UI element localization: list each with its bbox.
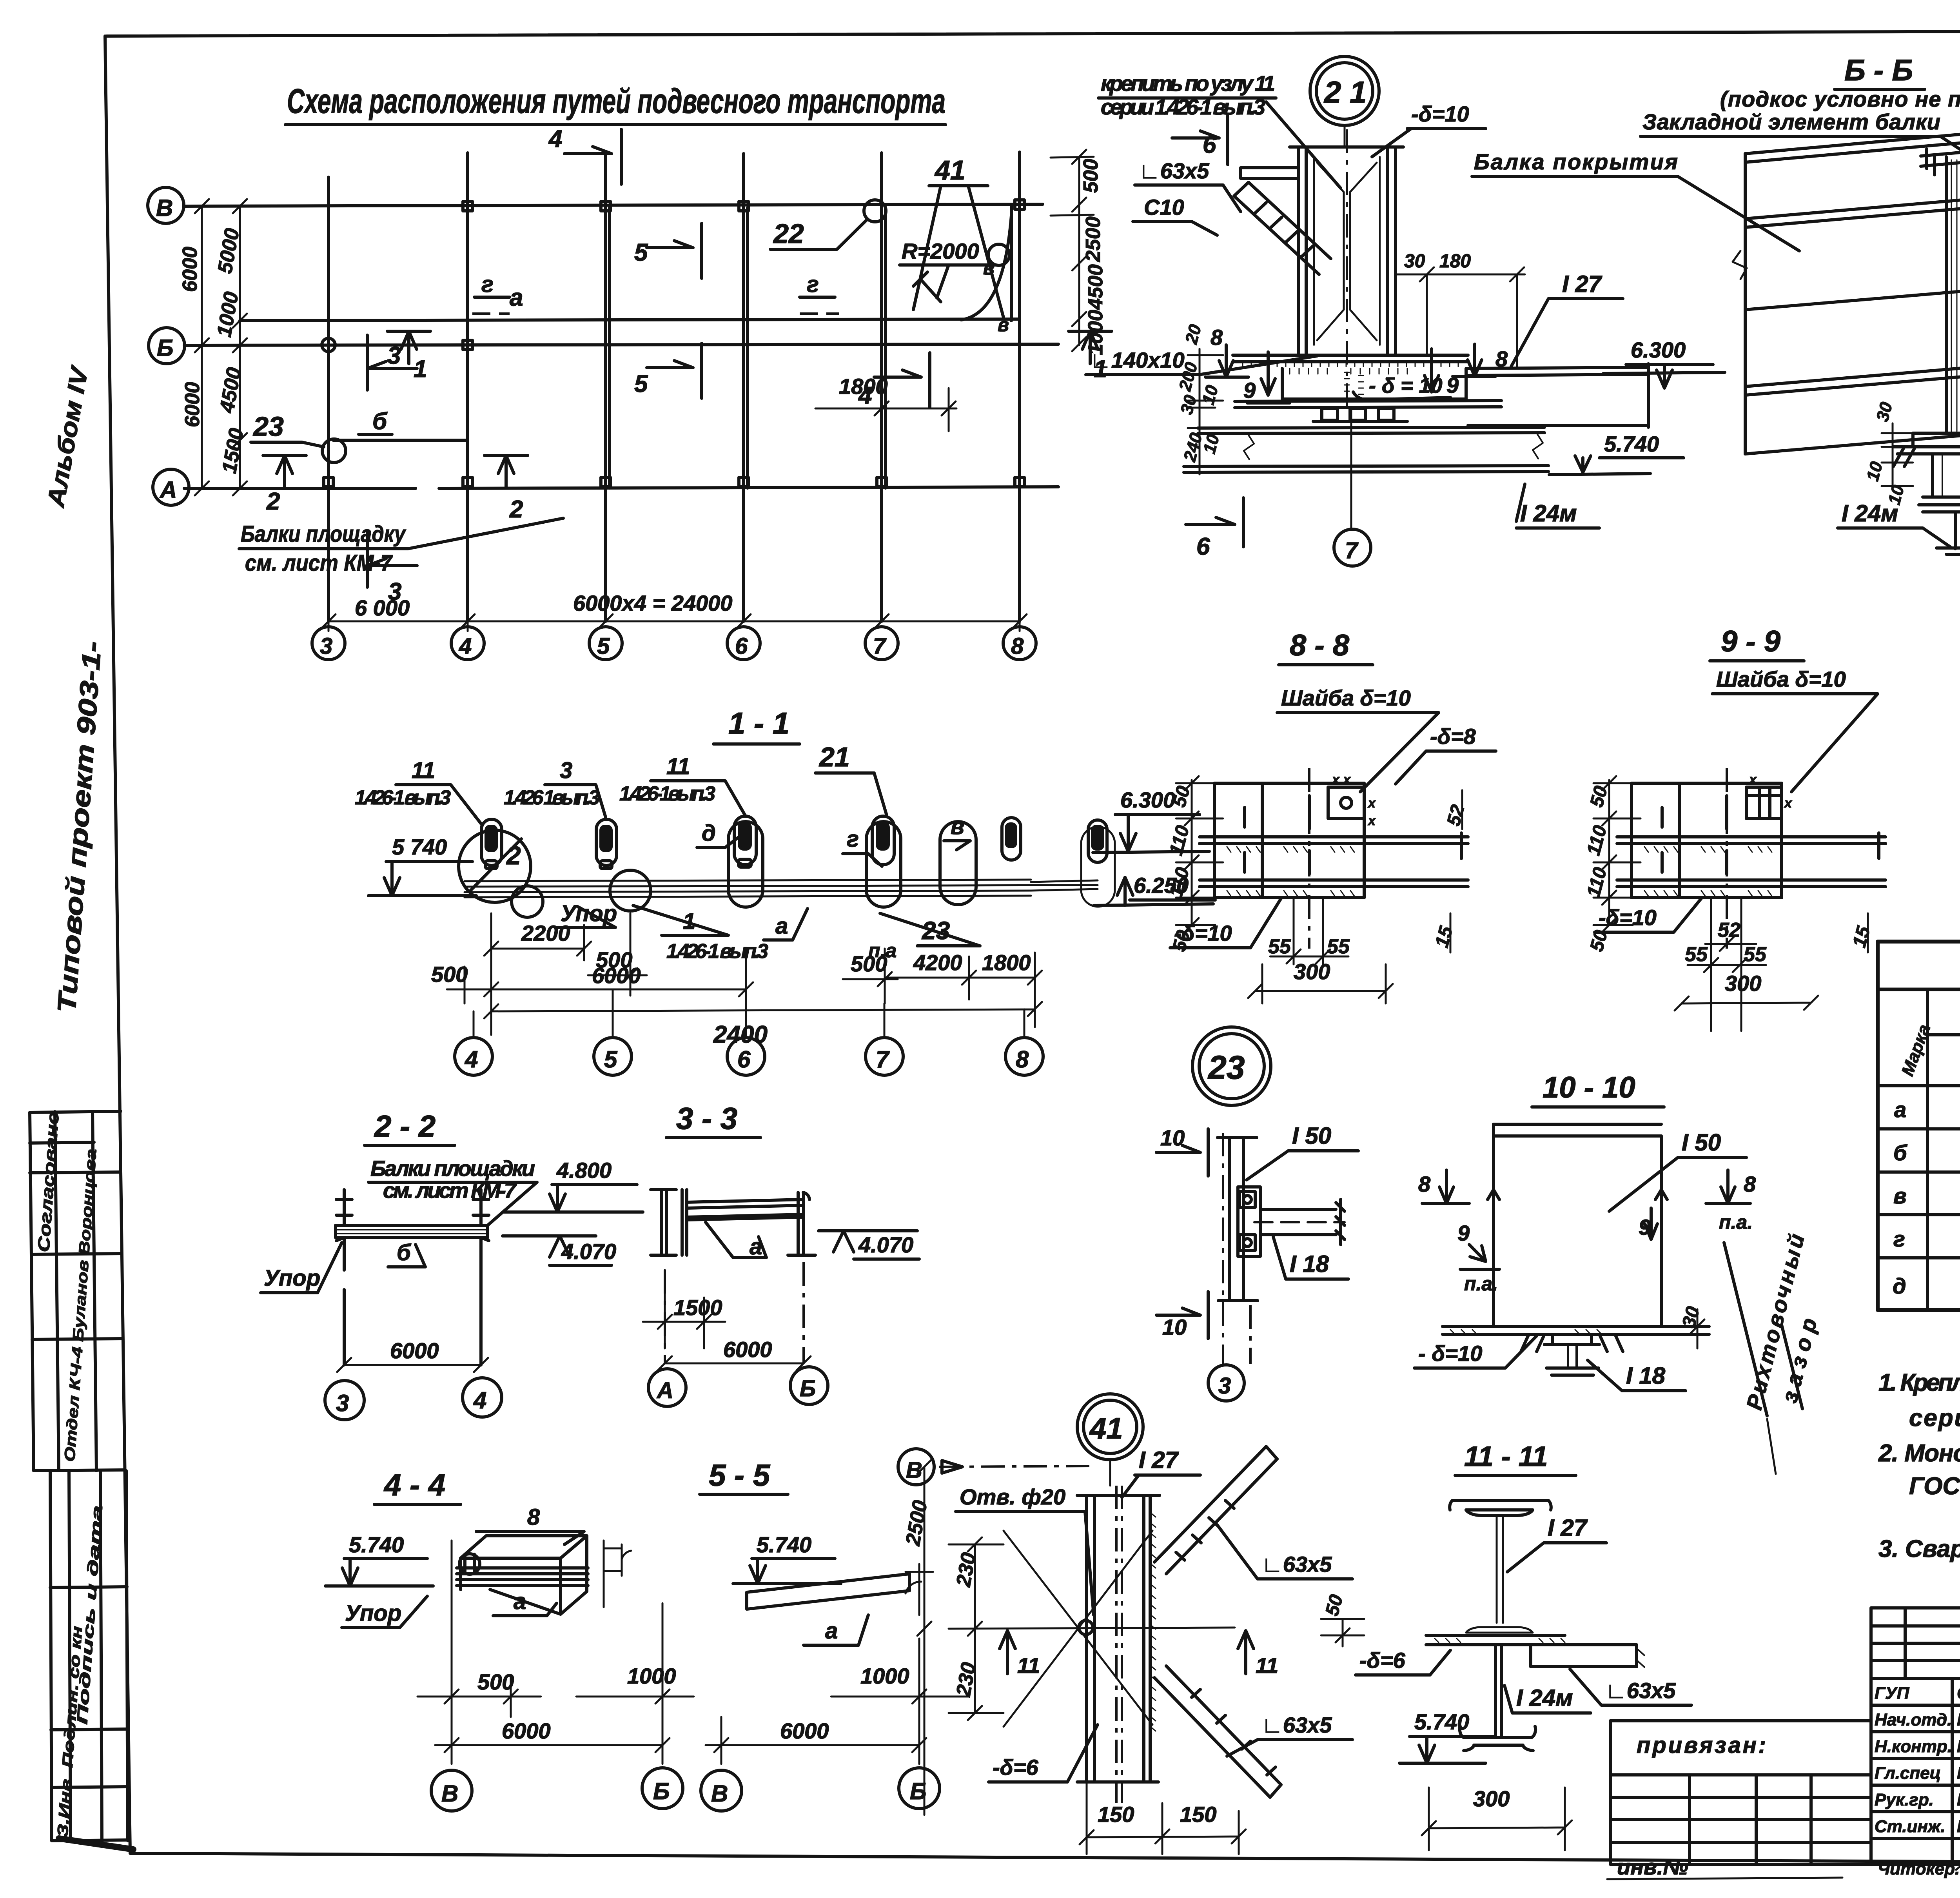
- centre line (41): [949, 1628, 1235, 1629]
- signature table: [1871, 1608, 1960, 1864]
- svg-text:г: г: [1893, 1227, 1905, 1251]
- hanger clip at col 5: [596, 819, 617, 869]
- svg-text:привязан:: привязан:: [1637, 1733, 1766, 1758]
- svg-text:крепить по узлу 11: крепить по узлу 11: [1101, 71, 1275, 96]
- svg-text:1.426 1вып.3: 1.426 1вып.3: [504, 786, 600, 809]
- base 10-10: [1443, 1326, 1709, 1375]
- svg-text:а: а: [775, 913, 788, 939]
- svg-text:4500: 4500: [1084, 264, 1107, 310]
- svg-text:(подкос условно не показан): (подкос условно не показан): [1720, 87, 1960, 111]
- axis circle А: [153, 469, 189, 505]
- svg-text:5.740: 5.740: [1604, 432, 1659, 456]
- svg-text:а: а: [510, 284, 523, 311]
- svg-text:∟63х5: ∟63х5: [1605, 1678, 1676, 1703]
- svg-text:3: 3: [560, 758, 572, 783]
- label I50 (23): [1247, 1123, 1358, 1180]
- top bracket (21): [1241, 168, 1298, 178]
- label г 1-1: [843, 826, 882, 866]
- joint circle at col 5: [610, 870, 651, 911]
- svg-text:4: 4: [548, 125, 562, 152]
- svg-text:11 - 11: 11 - 11: [1464, 1441, 1548, 1472]
- table header lines: [1927, 1033, 1960, 1036]
- circle 23: [1192, 1027, 1271, 1105]
- column line 7: [882, 153, 886, 621]
- elevation 4.070 2-2: [503, 1236, 616, 1265]
- label 41 plan: [913, 155, 1004, 318]
- dim 52 (9-9): [1705, 919, 1756, 951]
- svg-text:в: в: [983, 258, 995, 279]
- column squares row А: [324, 477, 1024, 487]
- hanger clip at col 7: [872, 816, 894, 865]
- svg-text:Катаева: Катаева: [1957, 1790, 1960, 1809]
- bottom dims 55/55 (9-9): [1685, 898, 1767, 1031]
- section axis circle 4 (1-1): [455, 1011, 492, 1075]
- column (41): [1077, 1495, 1160, 1782]
- svg-text:500: 500: [431, 962, 468, 987]
- title 8-8: [1279, 629, 1373, 665]
- svg-text:Упор: Упор: [345, 1600, 401, 1626]
- svg-text:I 27: I 27: [1139, 1447, 1179, 1473]
- column axis circle 8: [1003, 627, 1036, 660]
- svg-text:55: 55: [1685, 943, 1708, 966]
- label I27 (11-11): [1507, 1515, 1606, 1572]
- curve branch near col 8: [913, 216, 1011, 320]
- dim 500 (col7): [843, 949, 898, 1003]
- table row lines: [1878, 1129, 1960, 1258]
- axis circle Б (3-3): [790, 1367, 828, 1404]
- svg-text:3: 3: [1218, 1373, 1231, 1399]
- svg-text:б: б: [372, 408, 388, 434]
- svg-text:I 50: I 50: [1682, 1129, 1721, 1156]
- axis dash (41): [939, 1466, 1090, 1467]
- elevation 4.800: [504, 1158, 643, 1212]
- svg-text:8: 8: [1495, 347, 1508, 371]
- signature rows text: [1875, 1684, 1960, 1836]
- label L63x5 upper (41): [1217, 1525, 1352, 1579]
- svg-text:см. лист КМ-7: см. лист КМ-7: [245, 550, 393, 576]
- section axis circle 8 (1-1): [1005, 1009, 1043, 1075]
- label I27 (21): [1511, 271, 1623, 367]
- svg-text:д: д: [1893, 1274, 1906, 1298]
- svg-text:3: 3: [320, 633, 332, 659]
- svg-text:4 - 4: 4 - 4: [383, 1468, 445, 1502]
- column cap squares row В: [463, 200, 1024, 211]
- svg-text:4200: 4200: [913, 950, 962, 975]
- svg-text:1000: 1000: [627, 1664, 676, 1688]
- monorail b line: [333, 439, 468, 442]
- svg-text:2500: 2500: [1082, 216, 1105, 262]
- svg-text:300: 300: [1725, 971, 1761, 996]
- svg-text:в: в: [998, 315, 1009, 336]
- elevation 5740 (1-1): [368, 835, 476, 896]
- plate 8-8: [1200, 783, 1468, 898]
- label -δ=6 (41): [989, 1725, 1098, 1782]
- svg-text:∟140х10: ∟140х10: [1090, 348, 1185, 372]
- svg-text:х: х: [1748, 772, 1757, 787]
- svg-text:Колесова: Колесова: [1957, 1817, 1960, 1836]
- label Упор 2-2: [261, 1243, 342, 1293]
- mark 11 left (41): [1000, 1631, 1040, 1678]
- svg-text:г: г: [847, 826, 859, 852]
- svg-text:11: 11: [1017, 1653, 1040, 1678]
- svg-text:В: В: [156, 195, 173, 221]
- label 1 / 1.426-1вып.3: [633, 905, 768, 963]
- dim 500 4-4: [417, 1669, 541, 1717]
- svg-text:4: 4: [459, 633, 472, 659]
- lower I24м (11-11): [1460, 1645, 1535, 1751]
- svg-text:Нач.отд.: Нач.отд.: [1875, 1710, 1952, 1729]
- svg-text:В: В: [441, 1780, 458, 1807]
- bottom dim 150 150 (41): [1080, 1782, 1246, 1854]
- svg-text:6000: 6000: [179, 247, 201, 292]
- инв № handwriting: [1607, 1854, 1842, 1879]
- axis circle Б: [149, 328, 185, 364]
- elevation 6.250 (1-1): [1094, 873, 1215, 905]
- column line 3: [327, 177, 330, 621]
- last signature row scribble: [1878, 1858, 1960, 1878]
- svg-text:5: 5: [604, 1046, 618, 1072]
- svg-text:3: 3: [336, 1390, 349, 1416]
- label R=2000: [900, 239, 996, 298]
- svg-text:ГОСТ 22584-77 грузоподъемнос: ГОСТ 22584-77 грузоподъемностью: в осях …: [1909, 1473, 1960, 1500]
- hanger clip at col 6: [734, 816, 756, 867]
- svg-text:52: 52: [1718, 919, 1740, 942]
- row a: [1894, 1097, 1960, 1123]
- svg-text:9: 9: [1457, 1221, 1470, 1245]
- svg-text:1500: 1500: [673, 1295, 722, 1320]
- svg-text:серии 1.426-1 вып.3.: серии 1.426-1 вып.3.: [1909, 1404, 1960, 1432]
- dim 30 (10-10): [1678, 1304, 1704, 1348]
- svg-text:I 27: I 27: [1562, 271, 1602, 297]
- circle marker right of col 7: [940, 822, 976, 905]
- svg-text:Балка покрытия: Балка покрытия: [1474, 149, 1678, 174]
- svg-text:6000: 6000: [592, 963, 641, 988]
- svg-text:4.800: 4.800: [556, 1158, 612, 1183]
- svg-text:2 - 2: 2 - 2: [374, 1109, 436, 1143]
- dim 1800 1-1: [976, 950, 1042, 1003]
- label -δ=10 (10-10): [1414, 1336, 1537, 1368]
- row в: [1893, 1183, 1960, 1209]
- svg-text:I 18: I 18: [1626, 1363, 1666, 1389]
- axis row В line: [184, 204, 1043, 206]
- svg-text:6: 6: [1196, 533, 1210, 560]
- label Упор 4-4: [342, 1596, 427, 1628]
- svg-text:6000: 6000: [723, 1337, 772, 1362]
- elevation 4.070 3-3: [818, 1231, 919, 1259]
- svg-text:9: 9: [1446, 373, 1459, 397]
- svg-text:1000: 1000: [860, 1664, 909, 1688]
- washer square 9-9: [1746, 772, 1793, 818]
- upper brace L63x5 (41): [1154, 1446, 1277, 1574]
- svg-text:9 - 9: 9 - 9: [1721, 625, 1780, 658]
- beam 3-3: [687, 1192, 815, 1255]
- label д: [697, 820, 739, 847]
- svg-text:8 - 8: 8 - 8: [1290, 629, 1350, 662]
- svg-text:х: х: [1784, 796, 1793, 811]
- svg-text:г: г: [481, 272, 494, 297]
- column axis circle 3: [312, 627, 345, 660]
- svg-text:-δ=6: -δ=6: [1359, 1648, 1406, 1673]
- svg-text:2 1: 2 1: [1323, 75, 1367, 109]
- svg-text:∟63х5: ∟63х5: [1261, 1713, 1332, 1737]
- mark 11 right (41): [1238, 1631, 1278, 1678]
- svg-text:в: в: [951, 814, 964, 839]
- svg-text:5: 5: [634, 239, 648, 266]
- svg-text:инв.№: инв.№: [1617, 1854, 1688, 1879]
- svg-text:3: 3: [388, 578, 401, 605]
- section mark 5 bottom: [634, 343, 702, 398]
- section mark 4 bottom: [858, 353, 930, 409]
- column axis circle 5: [589, 627, 622, 660]
- svg-text:А: А: [656, 1378, 673, 1403]
- dim texts left chain (21): [1175, 322, 1223, 464]
- row г: [1893, 1225, 1960, 1252]
- svg-text:9: 9: [1243, 378, 1256, 403]
- dim 15 (9-9): [1849, 913, 1874, 953]
- svg-text:11: 11: [412, 758, 435, 783]
- dim 6000 1-1: [484, 949, 753, 1011]
- title 9-9: [1710, 625, 1804, 661]
- label L140x10: [1086, 348, 1317, 375]
- roof beam panel Б-Б: [1733, 130, 1960, 454]
- axis circle В (4-4): [431, 1770, 472, 1811]
- svg-text:6000: 6000: [780, 1718, 829, 1743]
- svg-text:а: а: [1894, 1097, 1906, 1122]
- label 23 1-1: [880, 913, 980, 946]
- left dim chain 9-9: [1593, 776, 1641, 932]
- stop circle upor: [512, 886, 543, 917]
- column (21): [1290, 147, 1403, 355]
- label 22: [770, 200, 886, 249]
- svg-text:Соловьев: Соловьев: [1957, 1684, 1960, 1703]
- svg-text:55: 55: [1327, 935, 1350, 958]
- bottom dim 300 (9-9): [1675, 971, 1818, 1011]
- svg-text:8: 8: [1016, 1046, 1029, 1072]
- mark 9 left + па (10-10): [1457, 1221, 1499, 1295]
- circle 3 (23): [1208, 1365, 1244, 1401]
- svg-text:Б: Б: [653, 1778, 670, 1804]
- svg-text:150: 150: [1180, 1802, 1216, 1827]
- verticals 5-5: [906, 1564, 933, 1678]
- svg-text:5: 5: [634, 370, 648, 397]
- washer square 8-8: [1328, 772, 1376, 828]
- column axis circle 7: [865, 627, 898, 660]
- mark 9 right (21): [1411, 349, 1459, 399]
- mark 6 bottom (21): [1186, 498, 1243, 560]
- elevation 6.300 (21): [1603, 338, 1725, 388]
- section axis circle 5 (1-1): [594, 989, 632, 1075]
- label I27 (41): [1122, 1447, 1200, 1497]
- svg-text:6000х4 = 24000: 6000х4 = 24000: [573, 591, 732, 615]
- left stamp table: [30, 1111, 133, 1849]
- svg-text:Закладной элемент балки: Закладной элемент балки: [1642, 109, 1940, 134]
- svg-text:В: В: [711, 1780, 728, 1807]
- svg-text:2: 2: [266, 488, 280, 515]
- section axis circle 7 (1-1): [866, 1003, 903, 1075]
- svg-text:Отв. ф20: Отв. ф20: [960, 1484, 1065, 1509]
- monorail beam 1-1: [465, 880, 1098, 897]
- mid flange (11-11): [1426, 1635, 1644, 1667]
- label 8 4-4: [476, 1504, 584, 1544]
- left dim verticals: [195, 199, 247, 495]
- dim 1500 3-3: [643, 1270, 725, 1348]
- svg-text:500: 500: [1080, 159, 1102, 193]
- svg-text:6000: 6000: [181, 382, 204, 427]
- section mark 2 mid: [485, 455, 528, 523]
- circle 41: [1077, 1394, 1143, 1486]
- svg-text:11: 11: [666, 754, 690, 779]
- label I50 (10-10): [1609, 1129, 1746, 1211]
- column line 5: [606, 154, 610, 621]
- dim 50 (11-11): [1321, 1592, 1364, 1646]
- svg-text:1800: 1800: [982, 950, 1031, 975]
- dim 500 (left): [431, 962, 491, 1003]
- elevation 5.740 5-5: [733, 1532, 841, 1584]
- svg-text:-δ=10: -δ=10: [1411, 102, 1469, 126]
- svg-text:I 27: I 27: [1548, 1515, 1588, 1541]
- label L63x5 (11-11): [1570, 1669, 1691, 1705]
- column 3-3: [651, 1190, 687, 1255]
- svg-text:Б: Б: [157, 335, 173, 361]
- svg-text:R=2000: R=2000: [902, 239, 979, 263]
- svg-text:8: 8: [1210, 325, 1223, 350]
- dim 2200: [484, 913, 591, 1035]
- svg-text:21: 21: [818, 742, 850, 772]
- label крепить по узлу 11: [1098, 71, 1341, 188]
- svg-text:а: а: [750, 1234, 762, 1259]
- svg-text:6.300: 6.300: [1631, 338, 1686, 362]
- title 5-5: [700, 1458, 788, 1494]
- svg-text:6: 6: [735, 633, 748, 659]
- svg-text:∟63х5: ∟63х5: [1139, 158, 1209, 183]
- svg-text:1.426-1вып.3: 1.426-1вып.3: [619, 782, 715, 805]
- svg-text:- δ=10: - δ=10: [1418, 1341, 1482, 1366]
- svg-text:1800: 1800: [839, 374, 888, 399]
- mark 8 down left (21): [1205, 325, 1249, 377]
- bottom dim 300 (8-8): [1248, 959, 1393, 1003]
- svg-text:8: 8: [1744, 1172, 1756, 1196]
- axis dashed 9-9: [1726, 768, 1728, 949]
- dim 4200: [885, 950, 976, 1000]
- svg-text:Б: Б: [800, 1376, 816, 1401]
- svg-text:б: б: [1893, 1140, 1907, 1165]
- label I24м (11-11): [1504, 1685, 1591, 1713]
- detail circle 2 on clip 4: [459, 830, 531, 902]
- mark 8 left (10-10): [1418, 1170, 1469, 1203]
- svg-text:4.070: 4.070: [561, 1239, 616, 1264]
- title 10-10: [1532, 1071, 1664, 1107]
- svg-text:6.300: 6.300: [1120, 788, 1175, 812]
- label 3 / 1.426 1вып3: [504, 758, 606, 817]
- section mark 1 right: [1069, 331, 1112, 383]
- dim 2500 (41): [902, 1460, 932, 1815]
- label -δ=8 (8-8): [1396, 724, 1496, 784]
- table outer: [1878, 942, 1960, 1310]
- column axis circle 6: [727, 627, 760, 660]
- dim 6000 3-3: [658, 1262, 811, 1370]
- svg-text:500: 500: [851, 951, 887, 976]
- svg-text:ГУП: ГУП: [1875, 1684, 1910, 1703]
- dim 2400 total: [484, 980, 1042, 1048]
- svg-text:6000: 6000: [502, 1718, 551, 1743]
- bolt washers (21): [1235, 401, 1501, 421]
- column I50 (23): [1218, 1138, 1258, 1301]
- axis row Б line: [184, 344, 1058, 345]
- svg-text:б: б: [397, 1240, 412, 1265]
- bottom dims 55/55 (8-8): [1268, 898, 1350, 964]
- svg-text:серии 1.426-1 вып.3: серии 1.426-1 вып.3: [1101, 94, 1265, 119]
- svg-text:Марков: Марков: [1957, 1737, 1960, 1756]
- column line 8: [1011, 152, 1020, 621]
- left dim chain (21): [1188, 349, 1223, 474]
- monorail b label + flag: [359, 408, 392, 434]
- label Отв ф20 (41): [956, 1484, 1094, 1615]
- column axis dashed (21): [1346, 129, 1348, 408]
- hanger capsule at col 7: [866, 822, 901, 907]
- svg-text:I 24м: I 24м: [1842, 500, 1898, 526]
- beam I18 (23): [1254, 1199, 1345, 1245]
- svg-text:Схема расположения путей подве: Схема расположения путей подвесного тран…: [287, 82, 946, 120]
- dim 6000 4-4: [435, 1717, 670, 1764]
- title 2-2: [365, 1109, 455, 1145]
- svg-text:Балки площадку: Балки площадку: [241, 521, 406, 547]
- label Шайба δ=10 (9-9): [1712, 667, 1878, 792]
- svg-text:х: х: [1367, 813, 1376, 828]
- label Упор 1-1: [557, 901, 617, 927]
- plate 9-9: [1617, 783, 1886, 898]
- hanger dashes г near col 7: [800, 272, 839, 314]
- svg-text:10: 10: [1162, 1315, 1187, 1339]
- upper I27 (11-11): [1450, 1501, 1551, 1633]
- mark 8 right + па (10-10): [1706, 1170, 1756, 1233]
- svg-text:Шайба δ=10: Шайба δ=10: [1716, 667, 1846, 691]
- section mark 2 left: [263, 455, 306, 515]
- svg-text:5.740: 5.740: [1414, 1709, 1469, 1734]
- flag б 2-2: [388, 1240, 425, 1267]
- svg-text:Рук.гр.: Рук.гр.: [1875, 1790, 1934, 1809]
- right dim vertical: [1051, 150, 1094, 351]
- svg-text:150: 150: [1098, 1802, 1134, 1827]
- label -δ=10 (8-8): [1170, 898, 1281, 948]
- bottom dim 300 (11-11): [1422, 1786, 1572, 1850]
- section mark 4 top: [548, 125, 621, 184]
- row д: [1893, 1254, 1960, 1298]
- svg-text:см. лист КМ-7: см. лист КМ-7: [383, 1178, 517, 1203]
- label Закладной элемент балки: [1641, 109, 1960, 169]
- column axis dashed (41): [1116, 1486, 1122, 1803]
- section mark 6 top (21): [1172, 116, 1228, 165]
- diag brace (21): [1234, 182, 1331, 274]
- svg-text:д: д: [702, 820, 716, 846]
- svg-text:Н.контр.: Н.контр.: [1875, 1737, 1952, 1756]
- svg-text:2: 2: [509, 496, 523, 523]
- dim 15 (8-8): [1431, 913, 1457, 953]
- label -δ=10 (9-9): [1595, 898, 1701, 932]
- right beam I27 (21): [1468, 364, 1648, 427]
- svg-text:6000: 6000: [390, 1338, 439, 1363]
- bolt plate (23): [1238, 1187, 1260, 1256]
- svg-text:3 - 3: 3 - 3: [676, 1101, 737, 1136]
- svg-text:41: 41: [934, 155, 965, 185]
- dim 1800: [815, 374, 956, 431]
- svg-text:Читокер. Ушаков: Читокер. Ушаков: [1878, 1859, 1960, 1878]
- dim 230 upper (41): [949, 1537, 1004, 1720]
- label C10 (21): [1133, 195, 1217, 235]
- dim 6000 2-2: [337, 1338, 488, 1372]
- svg-text:10 - 10: 10 - 10: [1543, 1071, 1635, 1104]
- axis circle А (3-3): [648, 1369, 686, 1406]
- svg-text:Шайба δ=10: Шайба δ=10: [1281, 686, 1411, 710]
